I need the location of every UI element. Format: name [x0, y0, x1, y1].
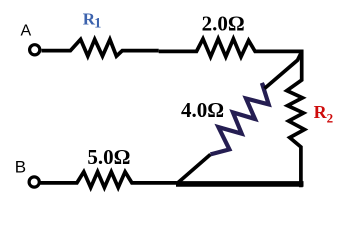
svg-text:4.0Ω: 4.0Ω	[181, 98, 224, 122]
label R1	[83, 9, 102, 31]
svg-text:R2: R2	[314, 102, 334, 125]
svg-text:R1: R1	[83, 9, 102, 31]
resistor 4.0ohm lower lead	[176, 154, 211, 184]
node A	[21, 23, 32, 40]
label 2.0ohm	[202, 12, 245, 36]
terminal A	[30, 45, 40, 55]
svg-text:2.0Ω: 2.0Ω	[202, 12, 245, 36]
node B	[15, 158, 26, 177]
svg-text:A: A	[21, 23, 32, 40]
wire bottom rail	[176, 181, 304, 187]
resistor 5.0ohm	[40, 172, 176, 188]
resistor 4.0ohm upper lead	[265, 52, 302, 89]
label 4.0ohm	[181, 98, 224, 122]
label 5.0ohm	[87, 145, 130, 169]
resistor R2	[287, 50, 305, 188]
resistor 2.0ohm	[159, 39, 304, 57]
resistor 4.0ohm zigzag	[211, 83, 269, 154]
resistor R1	[42, 39, 159, 56]
svg-text:B: B	[15, 158, 26, 177]
terminal B	[29, 177, 39, 187]
svg-text:5.0Ω: 5.0Ω	[87, 145, 130, 169]
label R2	[314, 102, 334, 125]
